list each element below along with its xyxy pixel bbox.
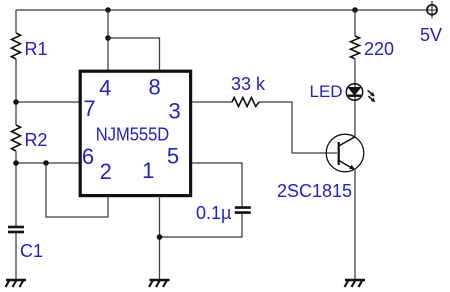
svg-text:2SC1815: 2SC1815 <box>277 181 352 201</box>
power terminal 5V <box>427 1 437 19</box>
svg-text:33 k: 33 k <box>231 74 266 94</box>
svg-text:R2: R2 <box>25 130 48 150</box>
LED D1 <box>346 84 362 100</box>
wire emitter to ground <box>354 169 356 279</box>
node junction top-pin4 <box>105 7 111 13</box>
transistor Q1 2SC1815 <box>326 134 364 172</box>
resistor 220 <box>351 36 360 59</box>
wire top rail <box>16 9 437 11</box>
svg-text:2: 2 <box>100 159 112 184</box>
node junction pin8-branch <box>105 35 111 41</box>
svg-text:8: 8 <box>148 75 160 100</box>
node junction left-pin7 <box>13 99 19 105</box>
resistor R2 <box>12 125 21 151</box>
wire pin4 drop <box>107 10 109 70</box>
capacitor 0.1u <box>235 208 251 213</box>
wire pin6 <box>16 162 79 164</box>
wire left rail (R2 to C1) <box>15 151 17 226</box>
svg-text:6: 6 <box>82 144 94 169</box>
LED emission arrows <box>368 90 376 102</box>
svg-text:7: 7 <box>83 96 95 121</box>
node junction left-pin6 <box>13 160 19 166</box>
svg-text:R1: R1 <box>25 39 48 59</box>
svg-text:5: 5 <box>167 144 179 169</box>
wire C1 to ground <box>15 233 17 279</box>
wire pin2 jog <box>46 163 108 217</box>
resistor 33k <box>232 98 259 107</box>
wire pin1 down <box>159 196 161 279</box>
svg-text:C1: C1 <box>20 241 43 261</box>
svg-text:4: 4 <box>99 76 111 101</box>
svg-text:0.1µ: 0.1µ <box>196 203 231 223</box>
node junction pin1-cap <box>157 234 163 240</box>
resistor R1 <box>12 33 21 59</box>
capacitor C1 <box>8 227 24 232</box>
wire pin3 out <box>192 101 232 103</box>
wire left rail upper (to R1) <box>15 10 17 33</box>
ground middle <box>149 280 170 287</box>
wire 33k to base <box>259 102 337 153</box>
wire left rail (R1 to R2) <box>15 59 17 125</box>
IC U1 NJM555D <box>80 71 190 195</box>
wire pin5 to cap <box>192 163 242 207</box>
svg-text:220: 220 <box>364 39 394 59</box>
wire 220 top <box>354 10 356 36</box>
wire pin7 <box>16 101 79 103</box>
ground right <box>345 280 366 287</box>
svg-text:5V: 5V <box>420 25 442 45</box>
wire cap to pin1 rail <box>160 214 243 237</box>
svg-text:3: 3 <box>168 98 180 123</box>
wire 220 to LED and through to collector <box>354 59 356 137</box>
svg-text:1: 1 <box>142 158 154 183</box>
node junction pin2-branch <box>43 160 49 166</box>
wire pin8 jog <box>108 38 160 70</box>
svg-text:LED: LED <box>310 82 343 101</box>
node junction top-220 <box>352 7 358 13</box>
ground left <box>6 280 27 287</box>
svg-text:NJM555D: NJM555D <box>96 125 170 145</box>
